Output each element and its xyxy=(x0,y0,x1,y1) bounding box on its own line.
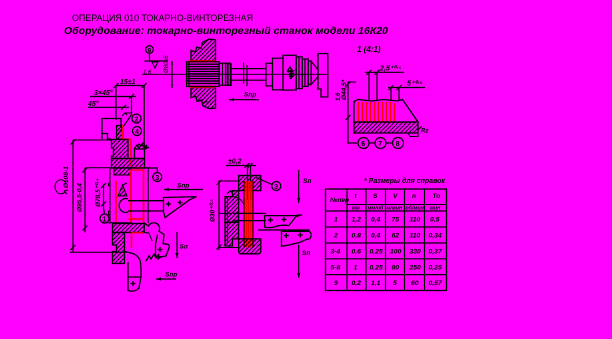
boring bar shank xyxy=(128,200,164,202)
tool C cross xyxy=(158,247,163,252)
table row 4 xyxy=(331,264,442,271)
svg-text:80: 80 xyxy=(392,264,400,271)
red contact bottom xyxy=(189,86,216,88)
tool holder top xyxy=(102,119,121,140)
svg-text:75: 75 xyxy=(392,217,400,224)
balloon leader L xyxy=(348,122,357,143)
svg-text:2: 2 xyxy=(333,233,338,240)
svg-text:60: 60 xyxy=(411,280,419,287)
feed arrow Spr under shaft xyxy=(229,99,259,101)
left hub top hatched xyxy=(225,191,239,223)
shaft thin section xyxy=(231,68,266,70)
svg-text:To: To xyxy=(433,193,441,200)
shaft step xyxy=(227,64,231,86)
balloon 8 xyxy=(393,138,404,149)
svg-text:Rz: Rz xyxy=(421,129,428,135)
tool C angled xyxy=(144,223,170,257)
svg-text:0,8: 0,8 xyxy=(352,233,362,240)
svg-text:±0,2: ±0,2 xyxy=(228,159,242,166)
svg-text:Ø108-1: Ø108-1 xyxy=(63,166,70,188)
hub arc xyxy=(233,197,245,209)
chips scribble bottom xyxy=(146,254,161,261)
roughness flag in bore xyxy=(118,183,127,196)
dim line d108 xyxy=(72,140,74,252)
svg-text:Ø95,5-0,4: Ø95,5-0,4 xyxy=(77,183,84,212)
center rings xyxy=(296,57,302,89)
svg-text:0,2: 0,2 xyxy=(352,280,362,287)
left dim d44 xyxy=(347,82,349,122)
workpiece gear body xyxy=(187,62,220,87)
svg-text:* Размеры для справок: * Размеры для справок xyxy=(364,177,445,185)
thread squiggle xyxy=(137,143,145,148)
svg-text:3: 3 xyxy=(274,184,278,191)
svg-text:V: V xyxy=(393,193,398,200)
bore column outline xyxy=(243,181,245,248)
balloon 5 leader xyxy=(135,168,157,173)
leader check mark xyxy=(122,113,132,116)
svg-text:0,5: 0,5 xyxy=(430,217,440,224)
red bore top xyxy=(131,169,144,171)
bottom flange hatched xyxy=(239,239,261,254)
svg-text:Sпр: Sпр xyxy=(177,183,189,190)
center cone xyxy=(311,62,318,85)
lower tool mid xyxy=(258,230,311,246)
svg-text:5⁺⁰·⁵: 5⁺⁰·⁵ xyxy=(407,80,423,88)
svg-text:7: 7 xyxy=(378,141,382,148)
datum balloon 9 xyxy=(146,46,154,54)
table grid xyxy=(326,189,447,291)
svg-text:0,6: 0,6 xyxy=(352,249,362,256)
svg-text:0,34: 0,34 xyxy=(429,233,442,240)
hub right edge xyxy=(147,168,149,223)
feed arrow Sp bottom xyxy=(298,245,300,278)
shaft break ticks xyxy=(243,63,245,84)
shaft step2 xyxy=(266,63,273,86)
svg-text:м/мин: м/мин xyxy=(387,206,404,212)
svg-text:S: S xyxy=(373,193,378,200)
svg-text:1,6: 1,6 xyxy=(143,70,152,76)
dim line d78 xyxy=(103,184,105,208)
svg-text:110: 110 xyxy=(410,217,421,224)
svg-text:0,4: 0,4 xyxy=(371,217,381,224)
red bore bottom xyxy=(129,218,145,220)
svg-text:Ø30⁺⁰·¹: Ø30⁺⁰·¹ xyxy=(210,199,217,222)
svg-text:ОПЕРАЦИЯ 010 ТОКАРНО-ВИНТОРЕЗ: ОПЕРАЦИЯ 010 ТОКАРНО-ВИНТОРЕЗНАЯ xyxy=(72,13,253,23)
bottom hub hatched xyxy=(225,222,239,246)
svg-text:3: 3 xyxy=(155,175,159,182)
svg-text:2,5⁺⁰·⁵: 2,5⁺⁰·⁵ xyxy=(379,65,402,73)
web band top hatched xyxy=(112,159,145,169)
svg-text:6: 6 xyxy=(361,141,365,148)
svg-text:Ø44,5*: Ø44,5* xyxy=(341,79,348,100)
red hatch detail xyxy=(359,102,395,122)
svg-text:мин: мин xyxy=(430,206,441,212)
Rz label xyxy=(418,126,422,130)
red bore mid xyxy=(130,170,132,223)
svg-text:8: 8 xyxy=(396,141,400,148)
chuck jaw bottom xyxy=(191,88,216,109)
rim top column hatched xyxy=(112,140,129,159)
svg-text:Ø60к6: Ø60к6 xyxy=(164,55,170,74)
svg-text:Sп: Sп xyxy=(180,244,188,251)
roughness triangle xyxy=(152,62,158,68)
feed arrow Sp down xyxy=(176,232,178,258)
centerline xyxy=(142,73,327,75)
upper tool mid xyxy=(265,215,302,228)
svg-text:5: 5 xyxy=(393,280,397,287)
svg-text:4: 4 xyxy=(135,129,139,136)
tool B head triangle xyxy=(164,197,197,218)
band bottom line xyxy=(103,222,132,224)
chuck jaw top xyxy=(191,39,216,61)
svg-text:100: 100 xyxy=(390,249,402,256)
balloon 3 leader xyxy=(256,178,272,185)
table row 1 xyxy=(334,217,440,224)
table header texts xyxy=(330,193,443,287)
long line under band xyxy=(85,167,150,169)
dim line d95 xyxy=(84,168,86,233)
red bore right xyxy=(143,170,145,224)
svg-text:62: 62 xyxy=(392,233,400,240)
table row 3 xyxy=(331,249,443,256)
table row 5 xyxy=(334,280,443,287)
svg-text:Sпр: Sпр xyxy=(244,92,256,99)
svg-text:1: 1 xyxy=(354,264,358,271)
balloon 1 xyxy=(104,208,105,214)
svg-text:3×45°: 3×45° xyxy=(94,89,113,97)
svg-text:2: 2 xyxy=(135,117,139,124)
svg-text:1: 1 xyxy=(103,217,107,224)
leader line xyxy=(116,114,132,137)
hatch band below xyxy=(354,122,418,133)
scribble mark xyxy=(287,67,294,79)
svg-text:1: 1 xyxy=(334,217,338,224)
flag line xyxy=(145,60,169,62)
svg-text:0,25: 0,25 xyxy=(429,264,442,271)
svg-text:5-8: 5-8 xyxy=(331,264,341,271)
table row 2 xyxy=(333,233,442,240)
svg-text:0,25: 0,25 xyxy=(370,249,383,256)
thread rect xyxy=(135,149,145,159)
red bore left xyxy=(115,181,117,223)
hub left inner lines xyxy=(226,197,228,244)
rim bottom column hatched xyxy=(113,233,125,264)
svg-text:Sп: Sп xyxy=(302,250,310,257)
red hline band xyxy=(135,167,145,169)
feed arrow Spr mid xyxy=(164,189,203,191)
balloon 7 xyxy=(375,138,386,149)
svg-text:1 (4:1): 1 (4:1) xyxy=(357,45,381,54)
svg-text:9: 9 xyxy=(334,280,338,287)
gear right rings xyxy=(219,63,230,85)
svg-text:330: 330 xyxy=(410,249,422,256)
red cut top xyxy=(122,125,124,140)
balloon 5 xyxy=(153,173,162,182)
svg-text:0,4: 0,4 xyxy=(371,233,381,240)
dim line d60 xyxy=(171,61,173,88)
band notch xyxy=(408,133,418,137)
bottom ext line xyxy=(70,251,128,253)
chips scribble xyxy=(134,144,149,149)
balloon 6 xyxy=(358,138,369,149)
red rim bottom xyxy=(131,233,133,249)
svg-text:0,37: 0,37 xyxy=(429,249,443,256)
svg-text:Оборудование: токарно-винторез: Оборудование: токарно-винторезный станок… xyxy=(64,25,388,37)
gear teeth lines xyxy=(187,64,220,83)
svg-text:1,1: 1,1 xyxy=(371,280,381,287)
tool D cross xyxy=(131,281,136,286)
roughness mark left xyxy=(227,191,235,194)
svg-text:№пер: №пер xyxy=(330,197,349,204)
svg-text:3-4: 3-4 xyxy=(331,249,341,256)
svg-text:мм: мм xyxy=(352,206,360,212)
balloon 4 xyxy=(133,127,142,136)
svg-text:0,25: 0,25 xyxy=(370,264,383,271)
bore left wall xyxy=(109,168,111,224)
small mark xyxy=(203,100,211,104)
svg-text:об/мин: об/мин xyxy=(406,205,425,212)
turn symbol xyxy=(55,180,68,194)
svg-text:мм/об: мм/об xyxy=(368,205,385,212)
band right end xyxy=(144,224,152,242)
balloon 2 xyxy=(132,114,141,123)
svg-text:n: n xyxy=(412,193,416,200)
tool bit hatched xyxy=(117,126,123,140)
web band bottom hatched xyxy=(113,224,145,233)
tool D vertical xyxy=(125,252,142,292)
center big cylinder xyxy=(283,55,296,90)
tailstock quill xyxy=(318,54,328,98)
red cut rim xyxy=(130,140,132,166)
svg-text:1,6: 1,6 xyxy=(336,92,342,101)
feed arrow Spr bottom xyxy=(156,278,176,280)
feed arrow Sp top xyxy=(298,170,300,203)
svg-text:1,2: 1,2 xyxy=(352,217,362,224)
bar nose arc xyxy=(119,199,128,213)
bore slot lines xyxy=(233,212,266,214)
block outline xyxy=(354,100,418,123)
balloon 3 xyxy=(272,182,281,191)
svg-text:0,57: 0,57 xyxy=(429,280,443,287)
svg-text:110: 110 xyxy=(410,233,421,240)
top flange hatched xyxy=(239,176,261,191)
dim d30 left xyxy=(218,181,220,251)
svg-text:Sпр: Sпр xyxy=(165,272,177,279)
svg-text:Sп: Sп xyxy=(303,178,311,185)
red bore wall xyxy=(245,181,252,248)
svg-text:250: 250 xyxy=(409,264,422,271)
band lower lip xyxy=(114,168,131,175)
svg-text:Ø78,5⁺⁰·⁴: Ø78,5⁺⁰·⁴ xyxy=(95,178,102,207)
red contact top xyxy=(189,60,216,62)
tool B crosses xyxy=(166,200,183,207)
center sleeve xyxy=(273,58,284,90)
